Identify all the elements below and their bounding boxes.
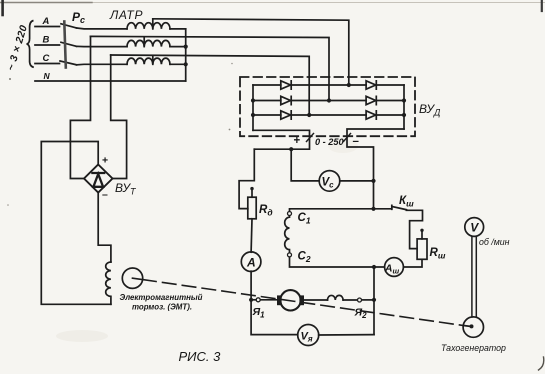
switch Pc blade phase B [61, 42, 77, 46]
wire VUd row1 [253, 84, 404, 86]
rectifier VUt bridge diamond [84, 165, 113, 193]
node right bus row2 junction [402, 98, 406, 102]
svg-text:0 - 250: 0 - 250 [315, 137, 344, 147]
wire VUd row2 [253, 100, 404, 102]
svg-text:+: + [294, 135, 301, 147]
terminal C2 circle [288, 253, 292, 257]
switch Pc tie bar [64, 22, 66, 68]
wire LATR B right end to bus [170, 46, 186, 48]
paper speck [9, 78, 11, 80]
ammeter A circle [241, 252, 261, 272]
wire VUt minus output to EMT coil [98, 193, 111, 263]
node minus rail junction [371, 207, 375, 211]
svg-text:+: + [102, 155, 108, 167]
svg-text:Тахогенератор: Тахогенератор [441, 343, 506, 353]
svg-text:B: B [43, 35, 50, 46]
paper smudge [328, 139, 358, 153]
ammeter Ash circle [385, 258, 404, 277]
wire field rail [290, 209, 392, 212]
scan border top edge [0, 2, 545, 4]
svg-text:тормоз. (ЭМТ).: тормоз. (ЭМТ). [132, 303, 192, 312]
wire ammeter A to node Ya1 [250, 271, 252, 300]
tick plus output crossing [307, 134, 314, 142]
wire motor to poles winding [304, 299, 328, 301]
motor M armature circle [280, 290, 300, 310]
wire phase B to LATR [77, 45, 128, 47]
transformer LATR winding A [127, 23, 170, 29]
svg-text:N: N [44, 71, 51, 81]
resistor Rd slider arrow [251, 190, 253, 198]
resistor Rd rheostat box [248, 197, 256, 219]
wire phase C to LATR [77, 63, 128, 66]
wire tacho twin link right [475, 237, 477, 317]
node input row1 junction [347, 83, 351, 87]
motor brush right [299, 295, 304, 305]
wire tacho twin link left [471, 237, 473, 317]
wire Rd to ammeter A [250, 219, 253, 252]
wire VUd minus output [347, 129, 404, 209]
terminal Ya1 circle [256, 298, 260, 302]
wire VUd left bus [252, 85, 254, 130]
wire Ksh to Rsh tap [406, 210, 422, 248]
voltmeter Vya circle [298, 325, 319, 346]
diode VD5 row2 right [366, 96, 376, 104]
node N line [35, 80, 186, 82]
wire Vc branch right [340, 180, 374, 182]
paper speck [229, 129, 231, 131]
node left bus row2 junction [251, 98, 255, 102]
svg-text:A: A [42, 16, 50, 27]
node C terminal line [35, 63, 60, 65]
wire tap C riser [152, 56, 154, 65]
wire VUd right bus [403, 85, 405, 129]
wire Ya2 terminal to node [362, 299, 374, 301]
transformer LATR winding B [127, 40, 170, 46]
resistor Rsh rheostat box [417, 239, 427, 259]
node A terminal line [35, 26, 60, 28]
motor brush left [277, 295, 282, 305]
diode VD4 row1 right [366, 81, 376, 89]
node bus-C junction [184, 62, 188, 66]
diode VD2 row2 left [281, 96, 291, 104]
wire armature minus vertical [373, 267, 375, 335]
svg-text:РИС. 3: РИС. 3 [179, 349, 222, 364]
svg-text:об /мин: об /мин [479, 237, 510, 247]
node bus-B junction [184, 45, 188, 49]
EMT brake circle [122, 268, 142, 288]
tachogenerator shaft dot [470, 324, 474, 328]
wire tap A riser [152, 19, 154, 29]
scan border top-left mark [1, 0, 4, 15]
wire LATR common bus to N [185, 29, 187, 81]
wire Ya1 to motor [251, 299, 256, 301]
wire C2 to field line [290, 257, 385, 267]
wire plus rail to Rd [239, 149, 254, 208]
wire LATR A right end to bus [170, 28, 186, 30]
wire phase A to LATR [77, 27, 128, 30]
brace [27, 21, 34, 68]
wire VUt AC feeder 1 [70, 36, 90, 178]
node input row3 junction [307, 113, 311, 117]
wire tap B riser [143, 37, 145, 47]
paper speck [7, 204, 9, 206]
wire output line 1 (tap A to VUd row1) [153, 19, 349, 85]
voltmeter Vc circle [319, 171, 340, 192]
rectifier VUd dashed box [240, 77, 415, 136]
wire Ya1 down to bottom rail [251, 300, 298, 335]
paper smudge [56, 330, 108, 342]
scan border bottom-right mark [539, 357, 544, 370]
tachogenerator circle [463, 317, 483, 337]
terminal Ya2 circle [358, 298, 362, 302]
EMT shaft pointer [133, 278, 143, 279]
wire Rsh to ammeter Ash [403, 259, 422, 267]
node input row2 junction [327, 98, 331, 102]
tachogenerator shaft entry [463, 326, 471, 327]
inductor field winding C1-C2 [285, 216, 290, 253]
paper speck [231, 63, 233, 65]
svg-text:–: – [102, 189, 108, 201]
node right bus row3 junction [402, 113, 406, 117]
scan border top-right mark [541, 0, 543, 11]
switch Pc blade phase C [60, 61, 77, 65]
node plus rail Vc branch junction [289, 147, 293, 151]
diode VD1 row1 left [281, 81, 291, 89]
wire poles to Ya2 terminal [343, 299, 357, 301]
inductor commutating poles [328, 295, 344, 300]
node Vc minus junction [371, 179, 375, 183]
diode VD3 row3 left [281, 111, 291, 119]
svg-text:А: А [246, 256, 256, 270]
node Ya2 junction [372, 298, 376, 302]
resistor Rsh slider arrow [421, 231, 423, 239]
transformer LATR winding C [127, 58, 170, 64]
node left bus row3 junction [251, 113, 255, 117]
wire output line 3 (to VUd row3) [111, 55, 310, 115]
svg-text:V: V [470, 221, 479, 235]
rectifier VUt internal diode symbol [92, 173, 104, 187]
wire LATR C right end to bus [170, 63, 186, 65]
terminal C1 circle [288, 212, 292, 216]
wire VUd plus output [253, 130, 310, 149]
svg-text:Электромагнитный: Электромагнитный [120, 293, 203, 302]
shaft coupling dash line [143, 280, 464, 326]
inductor EMT brake coil [106, 262, 111, 304]
svg-text:ЛАТР: ЛАТР [109, 8, 143, 22]
wire Ya1 terminal to brush [261, 299, 278, 301]
wire bottom rail right [319, 334, 374, 336]
wire VUt plus output to EMT [41, 142, 111, 305]
diode VD6 row3 right [366, 111, 376, 119]
node B terminal line [35, 44, 60, 46]
tick minus output crossing [344, 134, 351, 142]
switch Ksh blade [392, 205, 407, 209]
node Ya1 junction [249, 298, 253, 302]
wire Vc branch left [291, 149, 319, 181]
wire VUd row3 [253, 114, 404, 116]
wire output line 2 (to VUd row2) [91, 36, 330, 100]
wire VUt AC feeder 2 [111, 55, 127, 179]
voltmeter V tacho circle [465, 218, 484, 237]
node field-armature junction [372, 265, 376, 269]
svg-text:–: – [353, 136, 360, 148]
switch Pc blade phase A [61, 24, 77, 28]
svg-text:C: C [43, 53, 50, 64]
